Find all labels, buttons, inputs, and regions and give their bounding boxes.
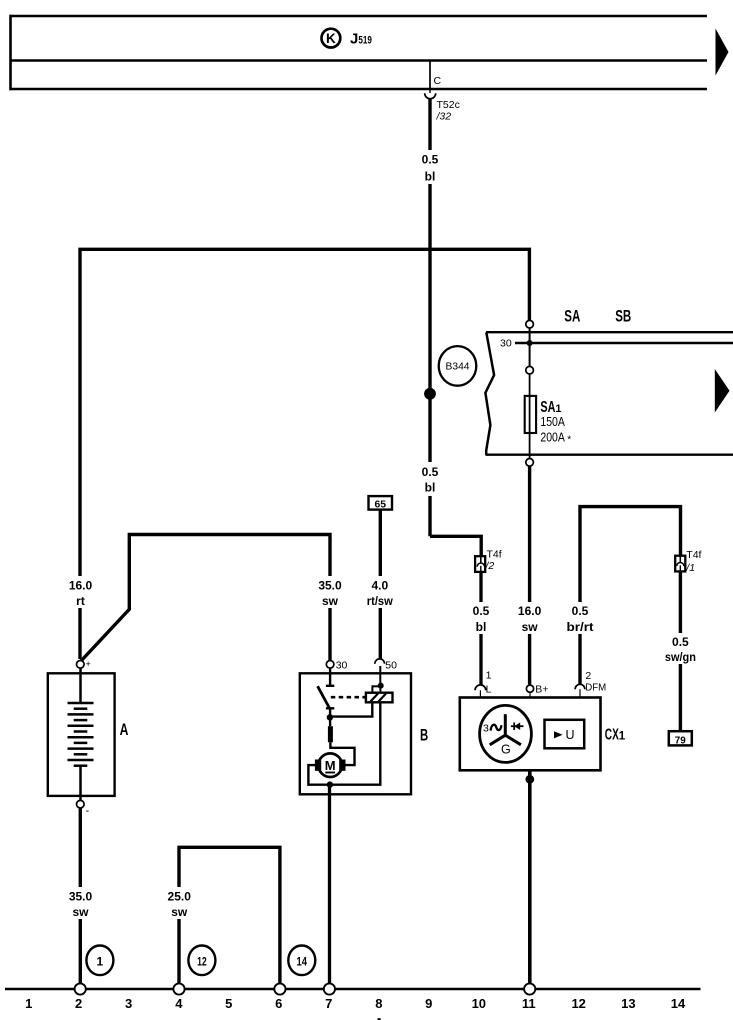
- actuation dashed line: [331, 696, 366, 699]
- connector T4f/2: [475, 549, 502, 573]
- connector T52c/32: [425, 89, 460, 123]
- alternator CX1 box: [460, 698, 626, 771]
- svg-text:7: 7: [325, 996, 332, 1011]
- starter ground wire: [328, 785, 331, 988]
- starter motor M: [318, 753, 342, 777]
- pin C of J519: [430, 61, 442, 90]
- svg-text:sw: sw: [322, 594, 339, 608]
- svg-text:0.5: 0.5: [422, 465, 439, 479]
- battery cells: [68, 668, 94, 800]
- wire label 0.5 br/rt: [563, 602, 598, 634]
- svg-text:1: 1: [486, 670, 492, 682]
- svg-text:rt: rt: [76, 594, 85, 608]
- svg-text:1: 1: [25, 996, 32, 1011]
- connection label B344: [439, 346, 477, 386]
- terminal 1 L: [475, 670, 492, 698]
- svg-text:C: C: [434, 75, 442, 87]
- terminal 2 DFM: [575, 670, 606, 698]
- wire label 16.0 sw: [513, 602, 546, 634]
- svg-text:0.5: 0.5: [422, 153, 439, 167]
- svg-text:B344: B344: [446, 362, 470, 373]
- ground node track 11: [524, 983, 535, 994]
- svg-text:B+: B+: [535, 684, 548, 696]
- alternator ground junction dot: [525, 775, 534, 784]
- svg-text:0.5: 0.5: [473, 604, 490, 618]
- svg-text:bl: bl: [476, 620, 487, 634]
- wire 4.0 rt/sw from ref 65 to term 50: [379, 510, 382, 659]
- motor minus junction dot: [327, 781, 333, 787]
- svg-text:65: 65: [375, 499, 387, 511]
- alternator ground wire: [528, 770, 532, 988]
- svg-text:B: B: [420, 726, 428, 744]
- svg-text:DFM: DFM: [585, 682, 606, 694]
- junction dot B344 point: [424, 388, 436, 400]
- svg-text:4: 4: [175, 996, 183, 1011]
- DFM link wire: [580, 507, 681, 685]
- voltage regulator U: [545, 720, 585, 749]
- svg-text:0.5: 0.5: [672, 635, 689, 649]
- wire 0.5 sw/gn T4f/1 to 79: [679, 571, 682, 731]
- svg-text:/2: /2: [485, 560, 495, 572]
- svg-text:T4f: T4f: [686, 549, 701, 561]
- svg-text:11: 11: [522, 996, 536, 1011]
- svg-text:L: L: [486, 683, 492, 695]
- ground node track 7: [324, 983, 335, 994]
- svg-text:sw: sw: [171, 905, 188, 919]
- svg-text:30: 30: [500, 337, 512, 349]
- svg-text:25.0: 25.0: [168, 890, 192, 904]
- svg-text:35.0: 35.0: [69, 890, 93, 904]
- wire label 4.0 rt/sw: [363, 576, 398, 608]
- reference box 79: [669, 731, 692, 746]
- svg-text:4.0: 4.0: [371, 579, 388, 593]
- svg-text:rt/sw: rt/sw: [367, 594, 394, 608]
- svg-text:sw: sw: [522, 620, 539, 634]
- svg-text:/1: /1: [685, 562, 695, 574]
- wire 16.0 sw fuse to B+: [528, 466, 531, 685]
- reference box 65: [369, 496, 393, 510]
- terminal symbol K in J519: [322, 29, 341, 48]
- svg-text:150A: 150A: [540, 414, 565, 429]
- wire 0.5 bl corner to T4f/2: [430, 536, 481, 563]
- svg-text:2: 2: [75, 996, 82, 1011]
- svg-text:6: 6: [275, 996, 282, 1011]
- svg-text:9: 9: [425, 996, 432, 1011]
- solenoid coil winding: [366, 666, 393, 702]
- svg-text:10: 10: [472, 996, 486, 1011]
- wire 0.5 bl T4f/2 to L: [479, 572, 482, 685]
- wire switch to coil: [330, 702, 372, 717]
- switch blade: [318, 686, 330, 708]
- terminal 50 of starter: [375, 659, 397, 671]
- fuse rail section SA SB: [564, 307, 631, 325]
- terminal 30 of starter: [326, 659, 347, 671]
- fuse output circle: [526, 459, 534, 467]
- footer mark: [378, 1018, 381, 1020]
- svg-text:16.0: 16.0: [69, 579, 93, 593]
- svg-text:2: 2: [585, 670, 591, 682]
- control unit J519 bus bar: [10, 15, 708, 91]
- svg-text:12: 12: [571, 996, 585, 1011]
- ground point label 12: [188, 946, 215, 976]
- svg-text:14: 14: [297, 954, 308, 968]
- rail input circle (top): [526, 320, 534, 328]
- battery - terminal: [77, 800, 90, 817]
- svg-text:1: 1: [97, 954, 104, 968]
- svg-text:T52c: T52c: [437, 99, 460, 111]
- generator G symbol: [480, 705, 532, 762]
- label J519: [350, 30, 372, 47]
- rail junction dot on line 30: [527, 328, 533, 366]
- wire label 35.0 sw (battery): [64, 887, 97, 919]
- ground baseline: [5, 988, 701, 990]
- svg-text:14: 14: [671, 996, 686, 1011]
- track numbers 1-14: [25, 996, 686, 1011]
- svg-text:/32: /32: [436, 111, 452, 123]
- svg-text:A: A: [120, 720, 129, 739]
- svg-text:-: -: [86, 805, 90, 817]
- svg-text:5: 5: [225, 996, 232, 1011]
- svg-text:bl: bl: [425, 481, 436, 495]
- battery feed wire (horizontal): [80, 249, 529, 659]
- wire label 25.0 sw: [162, 887, 195, 919]
- rectifier diode inside G: [511, 722, 524, 730]
- svg-text:+: +: [86, 659, 91, 669]
- starter B box: [300, 673, 428, 794]
- wire label 16.0 rt: [65, 576, 96, 608]
- switch lower contact: [326, 708, 334, 726]
- svg-text:G: G: [501, 742, 511, 756]
- wire 35.0 sw battery to ground: [79, 808, 82, 988]
- svg-text:*: *: [567, 435, 571, 446]
- battery A box: [48, 673, 129, 796]
- wire 0.5 bl from T52c down to corner: [428, 99, 431, 537]
- series resistance bar: [328, 726, 333, 742]
- svg-text:U: U: [566, 728, 575, 742]
- switch junction dot: [327, 714, 333, 720]
- svg-text:79: 79: [675, 734, 686, 746]
- svg-text:SB: SB: [615, 307, 631, 325]
- tear wavy line: [485, 332, 494, 454]
- ground node track 6: [274, 983, 285, 994]
- svg-text:br/rt: br/rt: [567, 620, 594, 634]
- wire label 0.5 sw/gn: [660, 633, 701, 664]
- wire coil to motor minus: [330, 702, 380, 784]
- svg-text:3: 3: [125, 996, 132, 1011]
- rail 30 lines: [486, 332, 733, 455]
- wire label 0.5 bl (middle): [416, 462, 444, 496]
- wire 35.0 sw from battery + to starter term 30: [81, 535, 331, 662]
- terminal B+: [526, 684, 548, 698]
- svg-text:8: 8: [375, 996, 382, 1011]
- wire label 0.5 bl (upper): [416, 150, 444, 184]
- svg-text:3: 3: [483, 722, 489, 734]
- continuation arrow right of rail: [715, 369, 730, 413]
- wire left brush to minus node: [308, 765, 330, 785]
- svg-text:12: 12: [197, 954, 207, 968]
- connector T4f/1: [675, 549, 701, 574]
- ground point label 1: [86, 946, 113, 976]
- ground strap wire 25.0 sw: [179, 847, 280, 986]
- svg-text:M: M: [325, 758, 336, 773]
- svg-text:0.5: 0.5: [572, 604, 589, 618]
- wire label 0.5 bl (lower): [467, 602, 495, 634]
- battery + terminal: [77, 659, 91, 669]
- svg-text:bl: bl: [425, 170, 436, 184]
- svg-text:sw/gn: sw/gn: [665, 650, 696, 664]
- solenoid switch contact (from 30): [326, 668, 334, 686]
- wire bar to motor brush: [330, 742, 354, 765]
- svg-text:35.0: 35.0: [318, 579, 342, 593]
- fuse SA1: [525, 374, 536, 458]
- continuation arrow right of J519: [716, 29, 729, 76]
- fuse feed circle: [526, 366, 534, 374]
- ground node track 2: [75, 983, 86, 994]
- motor brushes: [315, 760, 346, 771]
- svg-text:13: 13: [621, 996, 635, 1011]
- svg-text:K: K: [326, 31, 336, 46]
- svg-text:200A: 200A: [540, 429, 565, 444]
- svg-text:T4f: T4f: [487, 549, 502, 561]
- fuse labels SA1 150A 200A: [540, 399, 571, 446]
- svg-text:sw: sw: [72, 905, 89, 919]
- svg-text:SA: SA: [564, 307, 580, 325]
- svg-text:50: 50: [385, 659, 397, 671]
- wire label 35.0 sw (starter): [314, 576, 346, 608]
- ground point label 14: [288, 946, 315, 976]
- svg-text:30: 30: [336, 659, 348, 671]
- ground node track 4: [173, 983, 184, 994]
- svg-text:16.0: 16.0: [518, 604, 542, 618]
